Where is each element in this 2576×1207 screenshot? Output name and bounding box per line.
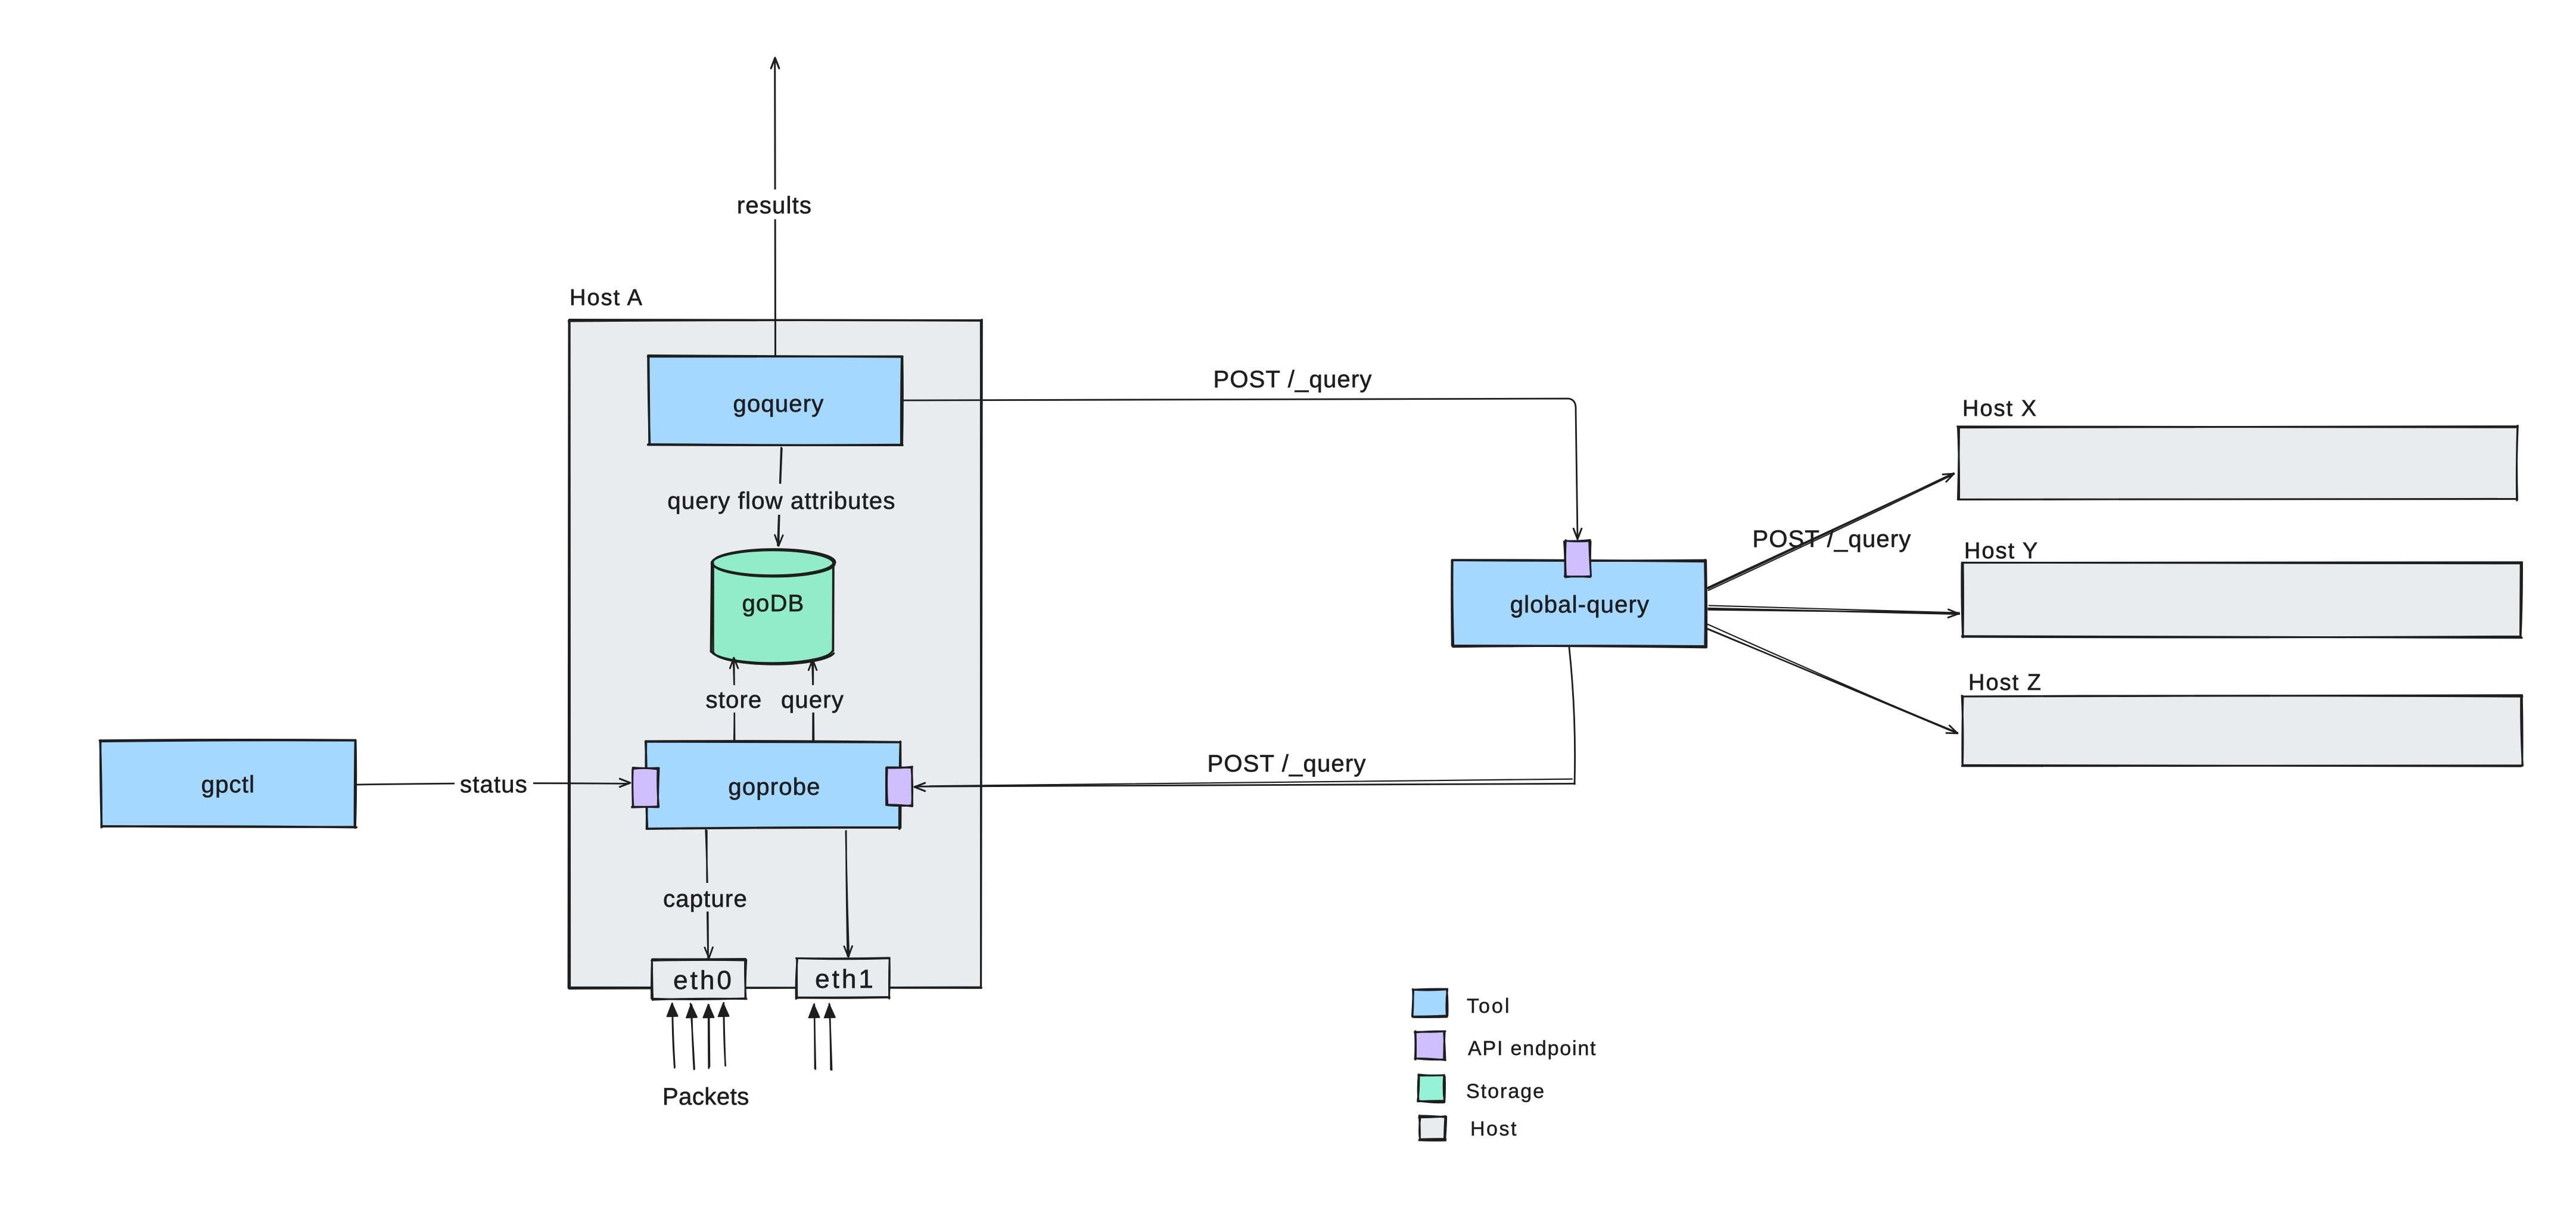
- host A container: [568, 320, 982, 989]
- legend swatch Host: [1419, 1115, 1446, 1140]
- arrow query (goprobe to goDB): [808, 660, 817, 741]
- label results: [733, 189, 816, 219]
- host Y box: [1962, 562, 2522, 638]
- label Host X: [1962, 396, 2037, 421]
- svg-text:results: results: [737, 192, 812, 219]
- arrow goquery to goDB: [775, 447, 783, 546]
- host X box: [1958, 426, 2518, 501]
- tool global-query: [1452, 560, 1706, 648]
- svg-text:Tool: Tool: [1467, 995, 1511, 1018]
- label eth0: [673, 966, 734, 995]
- svg-text:goquery: goquery: [733, 391, 825, 417]
- packet arrow eth0 #3: [703, 1004, 714, 1068]
- wire results (goquery to top): [771, 58, 779, 355]
- api endpoint global-query: [1564, 540, 1591, 577]
- label Host Z: [1968, 670, 2042, 695]
- wire status (gpctl to goprobe endpoint): [355, 779, 630, 787]
- svg-text:query: query: [781, 687, 844, 713]
- legend swatch Storage: [1418, 1075, 1445, 1103]
- svg-text:API endpoint: API endpoint: [1468, 1037, 1597, 1060]
- interface eth0: [652, 959, 746, 1000]
- svg-text:Host A: Host A: [570, 285, 643, 310]
- svg-text:Host X: Host X: [1962, 396, 2037, 421]
- arrow to Host Y: [1709, 605, 1960, 617]
- label gpctl: [201, 772, 256, 798]
- arrow goprobe to eth1: [844, 831, 853, 957]
- packet arrow eth1 #1: [809, 1004, 820, 1069]
- legend label Host: [1470, 1118, 1518, 1140]
- api endpoint goprobe right: [886, 767, 912, 807]
- svg-text:POST /_query: POST /_query: [1213, 366, 1372, 393]
- label POST /_query right: [1752, 526, 1911, 552]
- api endpoint goprobe left: [632, 768, 659, 808]
- label POST /_query top: [1213, 366, 1372, 393]
- tool gpctl: [99, 740, 356, 828]
- svg-text:Host Y: Host Y: [1964, 539, 2039, 564]
- label store: [703, 685, 765, 713]
- tool goquery: [648, 356, 903, 446]
- svg-text:status: status: [460, 772, 528, 798]
- svg-text:gpctl: gpctl: [201, 772, 256, 798]
- packet arrow eth0 #1: [667, 1003, 678, 1068]
- svg-text:Host Z: Host Z: [1968, 670, 2042, 695]
- label query: [781, 685, 844, 713]
- svg-text:store: store: [706, 687, 763, 713]
- svg-text:query flow attributes: query flow attributes: [667, 488, 895, 514]
- svg-text:POST /_query: POST /_query: [1752, 526, 1911, 552]
- label global-query: [1510, 592, 1650, 618]
- svg-text:goDB: goDB: [742, 590, 805, 617]
- svg-text:global-query: global-query: [1510, 592, 1650, 618]
- legend label Storage: [1466, 1080, 1545, 1103]
- tool goprobe: [646, 741, 901, 829]
- arrow to Host X: [1707, 473, 1954, 590]
- label capture: [663, 883, 748, 912]
- svg-text:goprobe: goprobe: [728, 774, 820, 800]
- label eth1: [815, 965, 876, 994]
- legend label API endpoint: [1468, 1037, 1597, 1060]
- svg-text:POST /_query: POST /_query: [1207, 751, 1366, 777]
- label Packets: [662, 1084, 749, 1110]
- svg-text:Storage: Storage: [1466, 1080, 1545, 1103]
- storage goDB cylinder: [711, 549, 835, 665]
- wire POST /_query (global-query to goprobe endpoint): [914, 648, 1575, 791]
- legend swatch Tool: [1412, 989, 1448, 1017]
- label POST /_query bottom: [1207, 751, 1366, 777]
- arrow store (goprobe to goDB): [730, 658, 738, 741]
- interface eth1: [796, 958, 890, 999]
- label goDB: [742, 590, 805, 617]
- legend swatch API endpoint: [1415, 1031, 1446, 1060]
- arrow capture (goprobe to eth0): [705, 830, 713, 959]
- wire POST /_query (goquery to global-query): [903, 399, 1582, 539]
- label query flow attributes: [664, 484, 900, 515]
- host Z box: [1962, 695, 2522, 766]
- label status: [455, 770, 533, 798]
- label Host Y: [1964, 539, 2039, 564]
- arrow to Host Z: [1707, 624, 1958, 733]
- svg-text:Host: Host: [1470, 1118, 1518, 1140]
- packet arrow eth0 #2: [686, 1004, 697, 1070]
- label goprobe: [728, 774, 820, 800]
- svg-text:Packets: Packets: [662, 1084, 749, 1110]
- svg-text:eth0: eth0: [673, 966, 734, 995]
- label goquery: [733, 391, 825, 417]
- svg-text:capture: capture: [663, 886, 748, 912]
- legend label Tool: [1467, 995, 1511, 1018]
- svg-text:eth1: eth1: [815, 965, 876, 994]
- label Host A: [570, 285, 643, 310]
- packet arrow eth1 #2: [825, 1004, 835, 1070]
- packet arrow eth0 #4: [718, 1003, 729, 1066]
